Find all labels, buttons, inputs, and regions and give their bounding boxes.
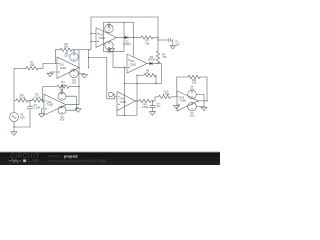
wire: riser x88.4 — [87, 50, 89, 68]
svg-text:TL082: TL082 — [99, 38, 106, 40]
ground — [174, 105, 180, 109]
capacitor C2 branch — [158, 39, 168, 41]
svg-text:4.64k: 4.64k — [163, 92, 170, 96]
svg-text:TL082: TL082 — [47, 104, 54, 106]
wire: OA1 out up to OA2 net — [79, 49, 91, 51]
resistor R2 — [32, 99, 44, 102]
resistor R3 — [141, 36, 153, 39]
svg-text:OA5: OA5 — [120, 98, 125, 101]
svg-text:15V: 15V — [72, 81, 77, 85]
wire to OA1 -input — [38, 63, 57, 68]
svg-text:LAB: LAB — [28, 158, 39, 164]
op-amp OA5 — [117, 92, 136, 111]
op-amp OA1 — [57, 57, 79, 78]
wire — [152, 108, 154, 112]
node junction — [61, 86, 62, 87]
voltage source V1 — [10, 113, 19, 122]
wire — [43, 100, 45, 102]
ground — [11, 132, 17, 136]
node junction — [133, 37, 134, 38]
svg-text:15V: 15V — [107, 50, 112, 54]
wire OA6 output riser — [66, 68, 79, 105]
svg-text:1N914: 1N914 — [148, 58, 156, 62]
svg-text:TL082: TL082 — [60, 68, 67, 70]
wire: x133.6 riser to OA3 — [133, 22, 135, 57]
node junction — [155, 83, 156, 84]
resistor R1 — [16, 99, 28, 102]
wire: OA2 -input stub — [91, 32, 96, 34]
wire: OA2 output — [117, 37, 125, 39]
node junction — [124, 67, 125, 68]
wire: C3 bottom to rail — [14, 109, 30, 127]
wire OA3 output — [147, 63, 150, 65]
resistor R5 — [14, 67, 26, 69]
resistor R8 — [144, 74, 156, 77]
ground — [47, 73, 53, 77]
wire to ground — [111, 47, 113, 49]
wire — [28, 100, 32, 102]
wire: R8 line — [137, 74, 144, 76]
wire OA6 +input to ground — [42, 109, 45, 114]
wire OA5 output — [136, 100, 140, 102]
node junction — [112, 51, 113, 52]
OA4 feedback loop — [177, 77, 188, 97]
voltage source V7 (OA4 V-) — [188, 102, 197, 111]
wire — [151, 100, 155, 102]
node junction — [73, 49, 74, 50]
voltage source V6 (OA4 V+) — [188, 90, 197, 99]
wire: x158 vertical with R7 — [157, 38, 159, 52]
ground — [39, 114, 45, 118]
wire — [157, 62, 159, 65]
node junction — [157, 37, 158, 38]
node junction — [88, 57, 89, 58]
OA1 feedback loop left riser — [55, 50, 60, 64]
svg-text:OA4: OA4 — [180, 97, 185, 100]
ground — [75, 109, 81, 113]
wire: branch at 57.6 — [88, 58, 114, 99]
resistor R11 — [188, 75, 200, 78]
node junction — [90, 33, 91, 34]
svg-text:3.16k: 3.16k — [34, 95, 41, 99]
svg-text:1µF: 1µF — [175, 42, 180, 46]
wire: riser x124 — [124, 67, 126, 115]
svg-text:7.5k: 7.5k — [145, 41, 151, 45]
node junction — [78, 86, 79, 87]
svg-text:10.6k: 10.6k — [19, 96, 26, 100]
voltage source V5 (OA2 V-) — [105, 41, 113, 49]
resistor R4 — [57, 85, 69, 88]
svg-text:15V: 15V — [60, 118, 65, 122]
svg-text:OA1: OA1 — [60, 64, 65, 67]
svg-text:4.64k: 4.64k — [142, 105, 149, 109]
node junction — [90, 41, 91, 42]
capacitor C3 — [27, 107, 33, 109]
svg-text:15V: 15V — [190, 87, 195, 91]
svg-text:15V: 15V — [64, 54, 69, 58]
node junction — [152, 100, 153, 101]
voltage source V4 (OA2 V+) — [105, 24, 113, 32]
voltage source V3 (OA1 V-) — [70, 69, 78, 77]
op-amp OA6 — [44, 94, 66, 115]
diode D2 — [150, 62, 153, 65]
wire loop to output — [72, 50, 79, 68]
wire OA5 +input — [117, 111, 137, 116]
op-amp OA3 — [127, 54, 147, 73]
svg-text:20k: 20k — [162, 55, 167, 59]
node junction — [78, 67, 79, 68]
svg-text:10k: 10k — [30, 63, 35, 67]
voltage source V2 (OA1 V+) — [70, 53, 78, 61]
wire: input node vertical x14 — [13, 68, 15, 100]
svg-text:10k: 10k — [64, 45, 69, 49]
op-amp OA2 — [96, 28, 117, 48]
resistor R7 (vertical) — [156, 51, 159, 63]
wire — [69, 86, 79, 88]
svg-text:15V: 15V — [107, 26, 112, 30]
wire OA3 +input — [113, 66, 127, 68]
node junction — [157, 39, 158, 40]
node junction — [206, 100, 207, 101]
node junction — [136, 100, 137, 101]
svg-text:1µF: 1µF — [156, 104, 161, 108]
supply loop wires — [196, 94, 204, 106]
ground — [82, 75, 88, 79]
wire: riser x161 — [161, 64, 163, 84]
net flag — [114, 95, 116, 99]
svg-text:1N914: 1N914 — [123, 42, 131, 46]
capacitor C4 — [150, 106, 156, 108]
resistor R6 — [60, 48, 72, 51]
ground — [201, 107, 207, 111]
supply box OA2 — [104, 22, 125, 51]
capacitor C3 lead — [29, 101, 31, 107]
node junction — [13, 126, 14, 127]
wire: OA2 outer loop — [91, 17, 158, 50]
ground — [170, 46, 175, 49]
wire to ground — [78, 74, 84, 75]
ground — [109, 49, 115, 53]
wire loop right — [200, 77, 207, 101]
wire OA4 +input ground — [176, 104, 179, 107]
node junction — [88, 67, 89, 68]
svg-text:http://www.circuitlab.com/c/9h: http://www.circuitlab.com/c/9h4u57t0jj89 — [48, 159, 107, 163]
wire — [76, 108, 78, 109]
wire — [170, 40, 172, 46]
wire — [153, 63, 162, 65]
wire — [153, 37, 158, 39]
node junction — [29, 100, 30, 101]
resistor R10 — [159, 95, 171, 98]
wire: box top extension to OA3 — [124, 21, 134, 23]
svg-text:TL082: TL082 — [120, 102, 127, 104]
OA6 feedback riser — [43, 87, 58, 101]
svg-text:0.1µF: 0.1µF — [34, 106, 41, 110]
svg-text:OA6: OA6 — [47, 101, 52, 104]
voltage source V9 (OA6 V-) — [58, 106, 66, 114]
svg-text:15V: 15V — [190, 114, 195, 118]
svg-text:TL082: TL082 — [130, 64, 137, 66]
wire: riser x137 — [136, 75, 138, 115]
wire — [171, 96, 178, 98]
wire: bottom rail — [124, 115, 125, 116]
wire: OA2 +input from below — [91, 40, 96, 42]
node junction — [124, 83, 125, 84]
ground — [150, 112, 156, 116]
svg-text:JWinters / project2: JWinters / project2 — [48, 154, 78, 158]
svg-text:10k: 10k — [192, 81, 197, 85]
wire OA1 +input to ground — [50, 72, 57, 73]
wire OA3 -input — [112, 52, 114, 68]
supply loop wires — [66, 96, 76, 110]
svg-text:TL082: TL082 — [180, 101, 187, 103]
wire — [203, 106, 205, 109]
wire — [155, 75, 157, 83]
node junction — [136, 75, 137, 76]
svg-text:OA2: OA2 — [99, 34, 104, 37]
node junction — [88, 49, 89, 50]
node junction — [157, 63, 158, 64]
capacitor C2 — [168, 38, 170, 42]
wire — [128, 37, 141, 39]
op-amp OA4 — [177, 91, 199, 111]
wire OA4 output — [199, 100, 208, 102]
svg-text:15V: 15V — [59, 91, 64, 95]
svg-text:OA3: OA3 — [130, 60, 135, 63]
diode D1 — [125, 36, 128, 39]
capacitor C4 lead — [152, 101, 154, 106]
resistor R9 — [139, 99, 151, 102]
node junction — [136, 83, 137, 84]
svg-text:SIN: SIN — [20, 115, 24, 119]
wire elbow to R10 — [155, 97, 159, 101]
node junction — [42, 100, 43, 101]
voltage source V8 (OA6 V+) — [58, 92, 66, 100]
wire: V1 top lead — [14, 100, 16, 102]
wire: bus y83.5 — [125, 83, 162, 85]
